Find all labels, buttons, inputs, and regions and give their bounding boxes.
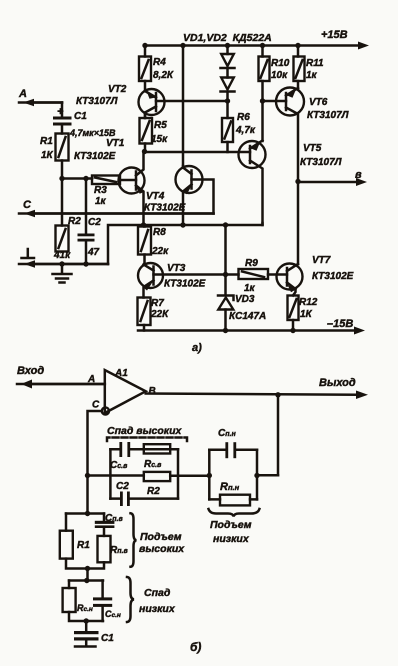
diode VD1 xyxy=(221,46,235,69)
wire to Rsn xyxy=(68,581,71,589)
svg-text:C1: C1 xyxy=(101,633,114,644)
loop2 top wire xyxy=(209,449,257,452)
resistor R1 xyxy=(56,134,69,161)
junction output/feedback xyxy=(275,392,280,397)
node block1 bottom xyxy=(85,566,90,571)
svg-text:R2: R2 xyxy=(68,216,81,227)
transistor VT1 (KT3102E, NPN) xyxy=(119,152,145,226)
node R5/VT1 collector xyxy=(142,149,147,154)
svg-text:R10: R10 xyxy=(271,58,290,69)
node R1/R3/C2 xyxy=(59,176,64,181)
svg-text:VD1,VD2 КД522А: VD1,VD2 КД522А xyxy=(183,32,272,44)
resistor R2 xyxy=(56,226,69,252)
svg-text:R7: R7 xyxy=(151,298,164,309)
svg-text:R8: R8 xyxy=(153,227,166,238)
junction VT3 base / VD3 column xyxy=(223,272,228,277)
wire R4 to VT2 xyxy=(144,81,147,91)
loop2 left vertical xyxy=(208,450,211,500)
node block2 top xyxy=(84,578,89,583)
capacitor Csn xyxy=(93,581,112,622)
svg-text:Подъем: Подъем xyxy=(140,531,182,543)
svg-text:VT2: VT2 xyxy=(108,84,127,95)
underbrace podyom nizkih xyxy=(209,509,260,517)
dashed bracket spad vysokih xyxy=(107,438,187,442)
wire block1 to block2 xyxy=(86,569,89,581)
svg-text:R12: R12 xyxy=(299,297,318,308)
junction R2 gnd xyxy=(59,261,64,266)
wire VT5 emitter up to VT6 base node xyxy=(261,101,264,141)
svg-text:–15B: –15B xyxy=(327,318,353,330)
svg-text:1К: 1К xyxy=(41,150,54,161)
op-amp A1 triangle xyxy=(105,370,146,413)
svg-text:1к: 1к xyxy=(95,196,107,207)
transistor VT2 (KT3107L, PNP) xyxy=(139,89,165,118)
zener diode VD3 (KS147A) xyxy=(218,296,234,331)
resistor R12 xyxy=(288,296,299,331)
svg-text:4,7мк×15B: 4,7мк×15B xyxy=(69,128,116,138)
svg-text:R9: R9 xyxy=(245,258,258,269)
resistor R6 xyxy=(222,118,233,152)
junction R10/VT6 base/VT5 emitter xyxy=(260,98,265,103)
output node v xyxy=(298,169,367,186)
resistor R2 (feedback) xyxy=(144,472,170,481)
wire node to R3 xyxy=(62,177,92,180)
svg-text:КТ3107Л: КТ3107Л xyxy=(307,110,350,121)
svg-text:R4: R4 xyxy=(153,57,166,68)
resistor R5 xyxy=(140,118,153,144)
junction VD3 bus xyxy=(223,222,228,227)
junction VT4 emitter bus xyxy=(180,222,185,227)
svg-text:Вход: Вход xyxy=(17,365,44,377)
wire diode junction to R6 xyxy=(226,101,229,118)
svg-text:1К: 1К xyxy=(300,309,313,320)
svg-text:б): б) xyxy=(190,640,201,654)
resistor R3 (horizontal) xyxy=(92,176,120,185)
resistor R8 xyxy=(138,225,151,265)
capacitor C1 (polarized) xyxy=(53,106,72,126)
capacitor Cpv xyxy=(95,514,115,536)
ground terminal arrow xyxy=(19,249,108,268)
svg-text:КТ3102Е: КТ3102Е xyxy=(144,203,186,214)
svg-text:А: А xyxy=(18,88,27,100)
wire to C1 xyxy=(85,621,88,631)
resistor R9 (horizontal) xyxy=(226,269,269,279)
svg-text:Cп.в: Cп.в xyxy=(105,513,123,524)
svg-text:22к: 22к xyxy=(151,246,169,257)
svg-text:R1: R1 xyxy=(77,540,90,551)
svg-text:C2: C2 xyxy=(116,481,129,492)
svg-text:высоких: высоких xyxy=(139,543,185,555)
block1 bottom wire xyxy=(66,559,104,569)
resistor R4 xyxy=(139,57,151,82)
svg-text:A: A xyxy=(87,374,95,385)
svg-text:C1: C1 xyxy=(74,111,87,122)
svg-text:+15B: +15B xyxy=(321,29,348,41)
svg-text:КТ3102Е: КТ3102Е xyxy=(164,279,206,290)
resistor Rsv xyxy=(144,444,170,453)
junction C2 gnd xyxy=(83,261,88,266)
svg-text:A1: A1 xyxy=(114,368,128,379)
svg-text:а): а) xyxy=(192,342,202,354)
svg-text:R3: R3 xyxy=(94,185,107,196)
svg-text:Cс.в: Cс.в xyxy=(110,460,128,471)
junction rail-VT4 xyxy=(180,43,185,48)
svg-text:R11: R11 xyxy=(306,58,324,69)
block2 bottom wire xyxy=(69,612,103,621)
node block2 bottom xyxy=(84,618,89,623)
emitter bus right corner to VT5 collector xyxy=(261,223,264,225)
loop1 right vertical xyxy=(177,449,180,498)
capacitor Csv xyxy=(119,442,130,457)
svg-text:VT1: VT1 xyxy=(106,138,125,149)
wire C input to left column xyxy=(88,411,102,512)
svg-text:10к: 10к xyxy=(271,70,288,81)
wire C1 to R1 xyxy=(61,126,64,134)
junction VT1 emitter bus xyxy=(141,222,146,227)
transistor VT7 (KT3102E, NPN) xyxy=(268,264,303,296)
svg-text:КТ3107Л: КТ3107Л xyxy=(300,157,343,168)
svg-text:Подъем: Подъем xyxy=(210,519,252,531)
svg-text:47: 47 xyxy=(87,247,100,258)
wire R1 down through C wire to R2 xyxy=(61,161,64,226)
svg-text:1к: 1к xyxy=(306,70,318,81)
input node C arrow xyxy=(19,199,214,217)
svg-text:Cп.н: Cп.н xyxy=(218,428,236,439)
wire input to C1 xyxy=(61,103,64,117)
collector column VT4 xyxy=(182,46,185,167)
wire R5 to VT5 base line xyxy=(144,144,147,152)
loop1 top wire xyxy=(110,448,178,451)
emitter bus wire xyxy=(108,225,263,264)
ground below C1 xyxy=(75,641,96,647)
junction rail-R10 xyxy=(260,43,265,48)
ground symbol below R2 xyxy=(53,264,72,283)
resistor R10 xyxy=(259,46,270,102)
block2 top wire xyxy=(69,579,103,582)
svg-text:4,7к: 4,7к xyxy=(235,125,256,136)
block1 top wire xyxy=(66,512,104,515)
svg-text:1к: 1к xyxy=(244,283,256,294)
svg-text:VT5: VT5 xyxy=(303,143,322,154)
main feedback wire xyxy=(88,474,279,477)
svg-text:Спад высоких: Спад высоких xyxy=(107,425,183,437)
transistor VT5 (KT3107L, PNP) xyxy=(239,141,266,224)
loop2 right vertical xyxy=(256,450,259,500)
transistor VT6 (KT3107L, PNP) xyxy=(263,88,305,182)
loop1 bottom wire xyxy=(110,497,178,500)
svg-text:VT4: VT4 xyxy=(146,191,165,202)
input wire with arrow xyxy=(17,380,105,389)
loop1 left vertical xyxy=(109,449,112,498)
svg-text:15к: 15к xyxy=(151,134,168,145)
inverting input circle xyxy=(102,407,109,414)
svg-text:КТ3102Е: КТ3102Е xyxy=(74,151,116,162)
wire rail to R4 xyxy=(144,46,147,57)
svg-text:Выход: Выход xyxy=(319,377,356,389)
junction VT6 collector/output xyxy=(295,179,300,184)
-15V power rail xyxy=(138,327,365,335)
wire VT2 base to diode junction xyxy=(156,100,228,103)
svg-text:+: + xyxy=(57,106,64,118)
svg-text:R5: R5 xyxy=(154,120,167,131)
capacitor Cpn xyxy=(225,442,236,458)
wire VT6 collector to VT7 collector xyxy=(297,182,300,265)
svg-text:VT3: VT3 xyxy=(167,263,186,274)
resistor R11 xyxy=(294,46,305,89)
transistor VT3 (KT3102E, NPN) xyxy=(138,263,226,298)
junction rail-VD1 xyxy=(225,43,230,48)
loop2 junction dots xyxy=(207,473,212,478)
svg-text:8,2К: 8,2К xyxy=(153,70,174,81)
transistor VT4 (KT3102E, NPN) xyxy=(176,166,214,225)
wire R3 to VT1 base xyxy=(120,179,136,182)
svg-text:VT6: VT6 xyxy=(309,97,328,108)
svg-text:R1: R1 xyxy=(40,136,53,147)
resistor Rsn xyxy=(63,588,76,612)
diode VD2 xyxy=(221,68,235,101)
wire VT5 base line xyxy=(145,151,251,154)
svg-text:C: C xyxy=(23,199,32,211)
input Vhod label xyxy=(17,365,44,377)
resistor Rpn xyxy=(220,495,250,506)
svg-text:B: B xyxy=(149,386,156,397)
brace podyom vysokih xyxy=(131,513,137,567)
+15V power rail xyxy=(144,42,369,50)
svg-text:R6: R6 xyxy=(237,112,250,123)
node lower chain top xyxy=(85,511,90,516)
svg-text:Rп.в: Rп.в xyxy=(110,545,128,556)
resistor R1 (lower) xyxy=(60,531,73,559)
capacitor C2 (feedback) xyxy=(120,492,130,507)
svg-text:КC147А: КC147А xyxy=(229,311,266,322)
svg-text:VD3: VD3 xyxy=(235,294,255,305)
wire VT2 collector to R5 xyxy=(144,113,147,119)
junction diode/R6/VT2 base xyxy=(225,98,230,103)
svg-text:22К: 22К xyxy=(150,309,169,320)
node main feedback wire xyxy=(85,473,90,478)
resistor R7 xyxy=(138,298,151,331)
input node A arrow xyxy=(18,88,62,106)
svg-text:Rс.в: Rс.в xyxy=(144,459,162,470)
capacitor C1 (lower) xyxy=(74,631,99,641)
svg-text:Rс.н: Rс.н xyxy=(77,603,93,613)
svg-text:R2: R2 xyxy=(147,486,160,497)
svg-text:C2: C2 xyxy=(88,217,101,228)
junction VD3 rail xyxy=(223,328,228,333)
wire bus to VD3 xyxy=(224,225,227,294)
svg-text:КТ3102Е: КТ3102Е xyxy=(312,271,354,282)
loop2 bottom wire xyxy=(209,498,257,501)
svg-text:низких: низких xyxy=(213,533,250,545)
feedback column from output xyxy=(277,395,280,476)
junction rail-R4 xyxy=(142,43,147,48)
svg-text:Спад: Спад xyxy=(144,587,171,599)
svg-text:КТ3107Л: КТ3107Л xyxy=(76,96,119,107)
svg-text:низких: низких xyxy=(139,603,176,615)
svg-text:VT7: VT7 xyxy=(312,255,331,266)
wire to R1 xyxy=(65,514,68,531)
svg-text:41к: 41к xyxy=(53,250,71,261)
svg-text:Cс.н: Cс.н xyxy=(105,609,121,619)
junction rail-R11 xyxy=(295,43,300,48)
capacitor C2 xyxy=(78,179,95,265)
svg-text:C: C xyxy=(92,400,100,411)
brace spad nizkih xyxy=(127,577,134,622)
output wire xyxy=(146,391,368,400)
svg-text:Rп.н: Rп.н xyxy=(220,481,240,493)
resistor Rpv xyxy=(98,536,111,562)
junction R12 rail xyxy=(290,328,295,333)
